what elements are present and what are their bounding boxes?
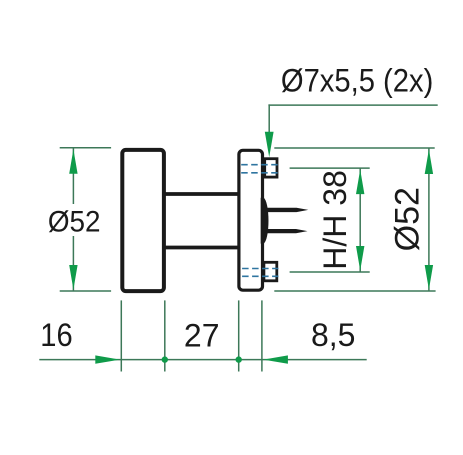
centerline dashed blue: top hole lower xyxy=(241,172,278,174)
svg-text:Ø52: Ø52 xyxy=(48,205,101,238)
extension line plate right xyxy=(261,300,263,371)
neck / shaft bottom line xyxy=(164,246,239,250)
dimension Ø7x5,5 leader: vertical drop xyxy=(268,104,270,150)
rose plate xyxy=(239,150,263,290)
extension line knob left xyxy=(120,300,122,371)
dimension H/H 38: top tick xyxy=(290,167,370,169)
bottom chain: dot at knob right xyxy=(162,356,168,362)
dimension Ø52 left: top tick xyxy=(60,147,111,149)
dimension Ø52 right: arrow down xyxy=(425,265,433,290)
svg-text:27: 27 xyxy=(184,318,220,354)
bottom chain: arrow pointing right at 16 xyxy=(95,355,120,363)
dimension H/H 38: arrow up xyxy=(356,170,364,195)
centerline dashed blue: bottom hole lower xyxy=(242,275,278,277)
dimension Ø52 left: arrow up xyxy=(69,149,77,174)
svg-text:8,5: 8,5 xyxy=(311,317,355,353)
spindle bar upper xyxy=(262,208,308,212)
bottom screw nub xyxy=(264,262,277,281)
bottom chain: arrow pointing left at 8,5 xyxy=(263,355,288,363)
dimension H/H 38: dim line xyxy=(359,168,361,272)
dimension Ø7x5,5 leader: arrow down to screw hole xyxy=(265,132,274,158)
dimension Ø52 left: arrow down xyxy=(69,265,77,290)
centerline dashed blue: top hole upper xyxy=(241,164,278,166)
bottom chain: dot at plate left xyxy=(236,356,242,362)
dimension Ø7x5,5 leader: horizontal xyxy=(268,104,437,106)
svg-text:16: 16 xyxy=(40,318,72,354)
extension line knob right xyxy=(164,300,166,371)
knob body (side view) xyxy=(122,150,164,291)
spindle bar lower xyxy=(262,229,308,233)
dimension Ø52 right: arrow up xyxy=(425,149,433,174)
svg-text:Ø52: Ø52 xyxy=(389,187,427,251)
dimension Ø52 left: bottom tick xyxy=(60,290,111,292)
bottom chain dimension: main line xyxy=(39,359,366,361)
dimension Ø52 left: dim line upper segment xyxy=(72,148,74,204)
top screw nub xyxy=(265,159,277,177)
dimension Ø52 right: top tick xyxy=(274,147,434,149)
svg-text:H/H 38: H/H 38 xyxy=(317,170,353,270)
svg-text:Ø7x5,5 (2x): Ø7x5,5 (2x) xyxy=(281,63,433,99)
dimension H/H 38: arrow down xyxy=(356,246,364,271)
centerline dashed blue: bottom hole upper xyxy=(242,268,278,270)
dimension Ø52 left: dim line lower segment xyxy=(72,236,74,291)
dimension Ø52 right: bottom tick xyxy=(274,290,435,292)
extension line plate left xyxy=(238,300,240,371)
dimension Ø52 right: dim line xyxy=(428,148,430,291)
dimension H/H 38: bottom tick xyxy=(290,271,370,273)
spindle hub bulge xyxy=(261,198,269,244)
neck / shaft top line xyxy=(164,192,239,196)
